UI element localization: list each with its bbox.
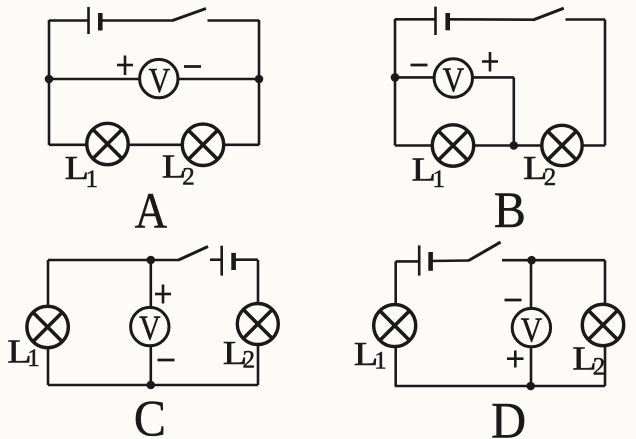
svg-text:A: A — [135, 183, 168, 239]
lamp L2 (D) — [582, 304, 623, 345]
svg-text:1: 1 — [433, 166, 446, 193]
battery B short plate — [445, 13, 450, 30]
voltmeter U-C — [131, 307, 169, 348]
node C-top junction — [147, 256, 156, 265]
label - (voltmeter A right) — [184, 65, 201, 68]
node A-left junction — [45, 75, 54, 84]
wire D top-left to battery — [396, 260, 419, 263]
wire C right vertical — [257, 260, 260, 385]
node C-bottom junction — [147, 381, 156, 390]
wire B battery to switch — [448, 18, 534, 21]
label - (voltmeter C bottom) — [158, 359, 175, 362]
svg-text:D: D — [491, 392, 526, 439]
svg-text:V: V — [443, 61, 465, 100]
wire C switch stub to battery — [210, 258, 222, 261]
voltmeter U-B — [434, 59, 472, 100]
wire C bottom — [48, 384, 258, 387]
voltmeter U-D — [512, 308, 550, 350]
svg-text:2: 2 — [544, 164, 557, 191]
lamp L1 (D) — [374, 305, 416, 347]
lamp L1 (B) — [432, 125, 473, 166]
wire A bottom — [49, 144, 259, 147]
battery A long plate — [87, 7, 90, 34]
svg-text:1: 1 — [27, 345, 40, 372]
wire A middle left — [49, 78, 140, 81]
wire D right vertical — [604, 260, 607, 386]
node D-top junction — [527, 256, 536, 265]
label + (voltmeter D bottom) — [507, 351, 524, 368]
wire D bottom — [395, 385, 605, 388]
battery D short plate — [428, 252, 433, 271]
wire C middle vertical — [150, 260, 153, 385]
wire D middle vertical — [530, 260, 533, 386]
wire B top-left to battery — [395, 18, 435, 21]
node B-left junction — [391, 73, 400, 82]
lamp L1 (C) — [27, 306, 68, 347]
svg-text:2: 2 — [182, 164, 195, 191]
label - (voltmeter D top) — [505, 299, 522, 302]
switch D blade — [469, 242, 501, 260]
node D-bottom junction — [526, 382, 535, 391]
svg-text:C: C — [134, 390, 166, 439]
svg-text:1: 1 — [86, 166, 99, 193]
svg-text:B: B — [494, 181, 526, 238]
switch B blade — [533, 8, 564, 20]
voltmeter U-A — [140, 59, 178, 100]
node B-bottom junction — [510, 141, 519, 150]
wire D switch to right corner — [502, 259, 605, 262]
wire B voltmeter to drop — [471, 76, 514, 79]
switch C blade — [179, 247, 209, 261]
label + (voltmeter B right) — [482, 52, 498, 72]
label - (voltmeter B left) — [411, 64, 428, 67]
wire A left vertical — [48, 20, 51, 145]
lamp L1 (A) — [87, 123, 128, 164]
wire C battery to right corner — [234, 258, 258, 261]
node A-right junction — [255, 75, 264, 84]
battery D long plate — [418, 245, 421, 275]
svg-text:1: 1 — [374, 348, 387, 375]
svg-text:V: V — [149, 62, 171, 101]
wire A battery to switch — [100, 19, 173, 22]
wire B right vertical — [604, 20, 607, 146]
wire A top-left to battery — [49, 19, 88, 22]
svg-text:V: V — [521, 311, 543, 350]
lamp L2 (C) — [237, 304, 278, 345]
wire B vertical drop to bottom — [512, 77, 515, 145]
lamp L2 (B) — [542, 125, 582, 165]
svg-text:V: V — [139, 309, 161, 348]
battery C long plate — [220, 246, 223, 276]
wire B bottom — [395, 144, 605, 147]
wire B left vertical — [394, 19, 397, 146]
battery B long plate — [434, 7, 437, 35]
wire A switch to right corner — [208, 19, 260, 22]
battery C short plate — [231, 253, 236, 270]
wire A right vertical — [258, 20, 261, 145]
label + (voltmeter A left) — [117, 56, 133, 76]
wire B switch to right corner — [566, 18, 606, 21]
svg-text:2: 2 — [243, 347, 256, 374]
wire C top-left — [48, 259, 179, 262]
wire D battery to switch — [431, 259, 470, 262]
battery A short plate — [98, 13, 103, 31]
wire B middle left — [395, 76, 434, 79]
label + (voltmeter C top) — [155, 285, 171, 304]
wire D left vertical — [394, 261, 397, 386]
switch A blade — [173, 9, 207, 21]
lamp L2 (A) — [182, 124, 223, 165]
svg-text:2: 2 — [593, 354, 606, 381]
wire C left vertical — [47, 260, 50, 385]
wire A middle right — [177, 78, 259, 81]
